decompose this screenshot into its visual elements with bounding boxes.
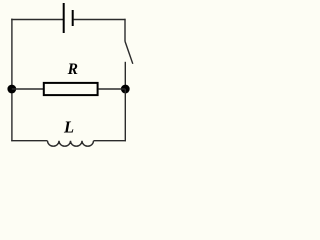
wire capacitor to top right corner	[74, 19, 126, 21]
wire right vertical upper (to switch)	[124, 19, 126, 41]
switch lower terminal wire	[124, 62, 126, 89]
node left junction dot	[7, 85, 16, 94]
svg-text:L: L	[63, 117, 74, 136]
svg-text:R: R	[67, 61, 78, 78]
switch blade	[125, 41, 133, 64]
wire top left to capacitor	[11, 19, 63, 21]
resistor R body	[44, 83, 98, 95]
capacitor C long plate	[63, 3, 65, 33]
wire right vertical lower	[124, 89, 126, 141]
wire left vertical	[11, 19, 13, 142]
wire left node to resistor	[12, 88, 44, 90]
capacitor C short plate	[72, 10, 74, 26]
wire bottom right segment	[94, 140, 127, 142]
node right junction dot	[121, 85, 130, 94]
wire resistor to right node	[98, 88, 125, 90]
wire bottom left segment	[11, 140, 47, 142]
inductor L coil	[48, 141, 94, 147]
